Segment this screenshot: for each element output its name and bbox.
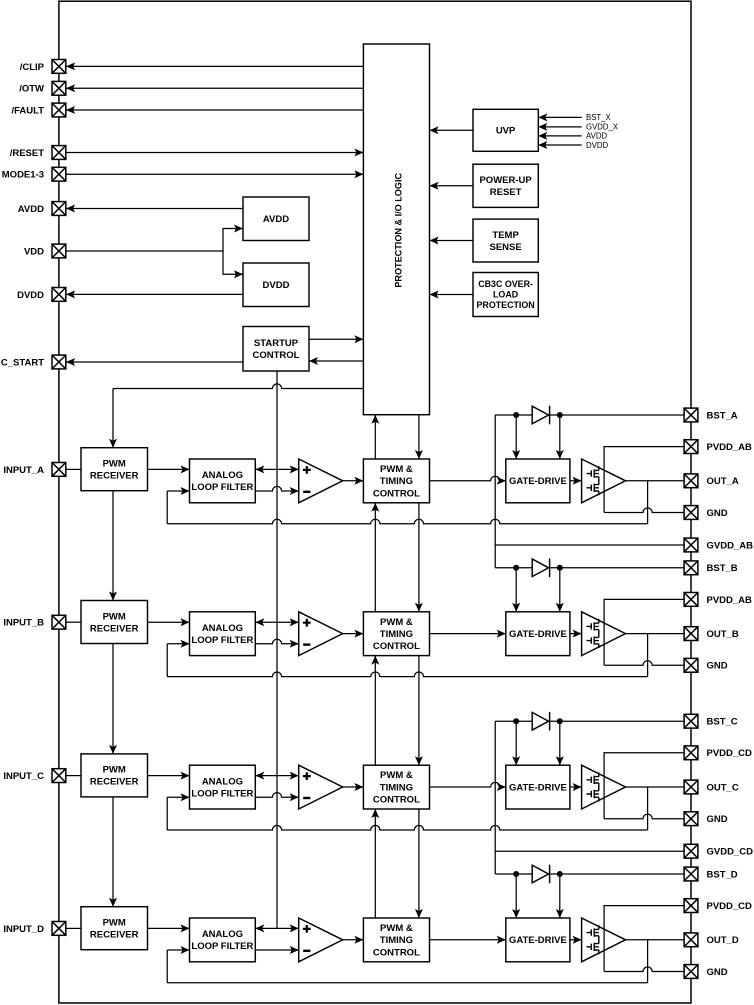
wire bootstrap BST_D [495, 873, 684, 875]
wire gate drive D to power stage [570, 939, 582, 941]
wire AVDD reg to pin [66, 208, 243, 210]
block UVP [473, 109, 538, 151]
svg-text:DVDD: DVDD [263, 280, 290, 291]
pin /RESET [52, 146, 66, 160]
wire control down PWM C to PWM D [418, 809, 420, 918]
svg-text:BST_A: BST_A [707, 410, 738, 421]
wire GND rail D [604, 967, 684, 972]
block ANALOG LOOP FILTER C [190, 765, 256, 809]
svg-text:TIMING: TIMING [380, 935, 413, 946]
svg-text:ANALOG: ANALOG [202, 929, 243, 940]
wire output feedback C [647, 787, 649, 830]
wire MODE1-3 [66, 173, 363, 175]
pin VDD [52, 244, 66, 258]
svg-text:PVDD_AB: PVDD_AB [707, 442, 753, 453]
svg-text:GND: GND [707, 967, 728, 978]
wire bootstrap drop right A [559, 415, 561, 459]
wire PVDD rail C [604, 753, 684, 819]
wire bootstrap drop left C [515, 721, 517, 765]
wire PWM receiver A to receiver B [112, 491, 114, 601]
svg-text:RECEIVER: RECEIVER [90, 777, 139, 788]
wire INPUT_C pin to receiver [66, 775, 81, 777]
block PWM RECEIVER B [81, 601, 148, 644]
wire GVDD_CD [495, 850, 684, 852]
block STARTUP CONTROL [243, 327, 309, 372]
wire output feedback B [647, 634, 649, 677]
junction dot bootstrap B cathode [557, 565, 563, 571]
wire PVDD rail A [604, 447, 684, 513]
svg-text:TIMING: TIMING [380, 782, 413, 793]
wire UVP input DVDD [538, 144, 581, 146]
diode bootstrap B [532, 559, 548, 577]
pin INPUT_B [52, 615, 66, 629]
svg-text:INPUT_D: INPUT_D [3, 924, 44, 935]
svg-text:GATE-DRIVE: GATE-DRIVE [509, 629, 567, 640]
svg-text:PVDD_AB: PVDD_AB [707, 595, 753, 606]
svg-text:BST_X: BST_X [586, 113, 611, 122]
pin GND #3 [684, 506, 698, 520]
block GATE-DRIVE A [506, 459, 570, 503]
svg-text:VDD: VDD [24, 246, 44, 257]
wire INPUT_A pin to receiver [66, 468, 81, 470]
svg-text:PVDD_CD: PVDD_CD [707, 748, 753, 759]
wire GND rail A [604, 508, 684, 513]
svg-text:STARTUP: STARTUP [254, 338, 299, 349]
wire loop filter A to comparator minus [255, 486, 298, 491]
svg-text:OUT_B: OUT_B [707, 629, 739, 640]
svg-text:OUT_C: OUT_C [707, 782, 739, 793]
power stage B [582, 612, 626, 656]
wire GND rail B [604, 661, 684, 666]
wire loop filter D to comparator plus [255, 927, 298, 929]
wire PWM timing D to gate drive [430, 939, 506, 941]
pin /FAULT [52, 103, 66, 117]
svg-text:LOOP FILTER: LOOP FILTER [191, 788, 253, 799]
svg-text:TEMP: TEMP [492, 230, 519, 241]
svg-text:AVDD: AVDD [18, 204, 44, 215]
pin C_START [52, 355, 66, 369]
svg-text:/OTW: /OTW [19, 84, 44, 95]
diode bootstrap D [532, 865, 548, 883]
pin INPUT_D [52, 922, 66, 936]
wire bootstrap drop left D [515, 874, 517, 918]
svg-text:ANALOG: ANALOG [202, 623, 243, 634]
svg-text:INPUT_C: INPUT_C [3, 771, 44, 782]
svg-text:POWER-UP: POWER-UP [479, 175, 532, 186]
pin GND #17 [684, 965, 698, 979]
svg-text:LOOP FILTER: LOOP FILTER [191, 941, 253, 952]
svg-text:DVDD: DVDD [586, 141, 608, 150]
wire /RESET [66, 152, 363, 154]
svg-text:PWM: PWM [103, 459, 126, 470]
wire comparator B to PWM timing [343, 633, 364, 635]
svg-text:GVDD_X: GVDD_X [586, 123, 619, 132]
block PROTECTION & I/O LOGIC [363, 44, 429, 415]
svg-text:/RESET: /RESET [10, 148, 45, 159]
pin PVDD_CD #10 [684, 746, 698, 760]
wire OUT_D [626, 939, 684, 941]
svg-text:PWM &: PWM & [380, 770, 413, 781]
wire loop filter B to comparator plus [255, 621, 298, 623]
wire PVDD rail D [604, 906, 684, 972]
pin BST_C #9 [684, 714, 698, 728]
wire PWM timing B to gate drive [430, 633, 506, 635]
svg-text:RECEIVER: RECEIVER [90, 930, 139, 941]
wire bootstrap drop right B [559, 568, 561, 612]
svg-text:OUT_D: OUT_D [707, 935, 739, 946]
wire PWM receiver B to receiver C [112, 644, 114, 754]
junction dot bootstrap B anode [513, 565, 519, 571]
power stage C [582, 765, 626, 809]
block PWM & TIMING CONTROL B [363, 612, 429, 656]
wire PVDD rail B [604, 599, 684, 665]
svg-text:SENSE: SENSE [489, 242, 521, 253]
wire INPUT_B pin to receiver [66, 621, 81, 623]
block AVDD regulator [243, 197, 309, 241]
pin OUT_B #7 [684, 627, 698, 641]
pin GVDD_AB #4 [684, 538, 698, 552]
power stage D [582, 918, 626, 962]
pin GVDD_CD #13 [684, 844, 698, 858]
wire startup control bus [276, 371, 278, 928]
wire bootstrap drop right C [559, 721, 561, 765]
svg-text:AVDD: AVDD [263, 214, 289, 225]
wire control down PWM B to PWM C [418, 656, 420, 766]
wire bootstrap drop left B [515, 568, 517, 612]
svg-text:CONTROL: CONTROL [373, 488, 420, 499]
block PWM RECEIVER C [81, 754, 148, 797]
pin OUT_C #11 [684, 780, 698, 794]
svg-text:C_START: C_START [1, 357, 44, 368]
svg-text:MODE1-3: MODE1-3 [2, 170, 44, 181]
svg-text:GVDD_AB: GVDD_AB [707, 540, 754, 551]
wire VDD to regulators [66, 250, 223, 252]
pin INPUT_A [52, 463, 66, 477]
svg-text:OUT_A: OUT_A [707, 476, 739, 487]
wire UVP input GVDD_X [538, 126, 581, 128]
svg-text:/FAULT: /FAULT [11, 105, 44, 116]
wire bootstrap vertical AB [494, 415, 496, 568]
pin BST_B #5 [684, 561, 698, 575]
svg-text:UVP: UVP [496, 126, 516, 137]
wire PWM timing C to gate drive [430, 782, 506, 787]
junction dot bootstrap A cathode [557, 412, 563, 418]
svg-text:PWM &: PWM & [380, 617, 413, 628]
svg-text:AVDD: AVDD [586, 132, 607, 141]
wire gate drive B to power stage [570, 633, 582, 635]
svg-text:RESET: RESET [490, 187, 522, 198]
wire power-up reset to protection [430, 185, 474, 187]
wire clock line to PWM receiver chain [113, 384, 363, 389]
wire loop filter A to comparator plus [255, 468, 298, 470]
wire GND rail C [604, 814, 684, 819]
pin MODE1-3 [52, 167, 66, 181]
pin BST_A #0 [684, 408, 698, 422]
block TEMP SENSE [473, 219, 538, 262]
block ANALOG LOOP FILTER B [190, 612, 256, 656]
wire receiver D to loop filter [148, 927, 190, 929]
wire bootstrap drop right D [559, 874, 561, 918]
pin GND #8 [684, 658, 698, 672]
svg-text:INPUT_B: INPUT_B [3, 618, 44, 629]
block GATE-DRIVE B [506, 612, 570, 656]
svg-text:PWM &: PWM & [380, 464, 413, 475]
block PWM RECEIVER A [81, 448, 148, 491]
pin OUT_A #2 [684, 474, 698, 488]
block ANALOG LOOP FILTER D [190, 918, 256, 962]
junction dot bootstrap A anode [513, 412, 519, 418]
wire protection to startup [309, 360, 363, 362]
wire status up PWM A to PWM B [374, 503, 376, 612]
svg-text:ANALOG: ANALOG [202, 470, 243, 481]
svg-text:RECEIVER: RECEIVER [90, 623, 139, 634]
pin AVDD [52, 202, 66, 216]
pin GND #12 [684, 812, 698, 826]
pin DVDD [52, 288, 66, 302]
pin /CLIP [52, 60, 66, 74]
diode bootstrap C [532, 712, 548, 730]
wire comparator C to PWM timing [343, 786, 364, 788]
wire GVDD_AB [495, 544, 684, 546]
wire /FAULT [66, 109, 363, 111]
pin BST_D #14 [684, 867, 698, 881]
wire UVP input AVDD [538, 135, 581, 137]
svg-text:PVDD_CD: PVDD_CD [707, 901, 753, 912]
svg-text:BST_B: BST_B [707, 563, 738, 574]
wire loop filter B to comparator minus [255, 639, 298, 644]
svg-text:TIMING: TIMING [380, 629, 413, 640]
comparator A [299, 459, 343, 503]
wire status up protection to PWM A [374, 415, 376, 459]
wire DVDD reg to pin [66, 293, 243, 295]
wire PWM receiver C to receiver D [112, 797, 114, 907]
svg-text:CONTROL: CONTROL [373, 947, 420, 958]
wire INPUT_D pin to receiver [66, 927, 81, 929]
comparator C [299, 765, 343, 809]
svg-text:LOOP FILTER: LOOP FILTER [191, 482, 253, 493]
block GATE-DRIVE D [506, 918, 570, 962]
block DVDD regulator [243, 263, 309, 307]
pin INPUT_C [52, 769, 66, 783]
wire bootstrap BST_A [495, 414, 684, 416]
comparator B [299, 612, 343, 656]
block CB3C OVERLOAD PROTECTION [473, 273, 538, 317]
block PWM & TIMING CONTROL C [363, 765, 429, 809]
block ANALOG LOOP FILTER A [190, 459, 256, 503]
svg-text:/CLIP: /CLIP [20, 62, 45, 73]
svg-text:PWM: PWM [103, 611, 126, 622]
pin PVDD_CD #15 [684, 899, 698, 913]
wire output feedback A [647, 481, 649, 524]
svg-text:PROTECTION: PROTECTION [477, 300, 535, 310]
wire OUT_B [626, 633, 684, 635]
wire C_START [66, 361, 243, 363]
wire OUT_C [626, 786, 684, 788]
block PWM & TIMING CONTROL D [363, 918, 429, 962]
pin PVDD_AB #6 [684, 593, 698, 607]
svg-text:CB3C OVER-: CB3C OVER- [478, 279, 533, 289]
block PWM RECEIVER D [81, 907, 148, 950]
wire bootstrap BST_B [495, 567, 684, 569]
svg-text:ANALOG: ANALOG [202, 776, 243, 787]
wire receiver C to loop filter [148, 775, 190, 777]
wire temp sense to protection [430, 240, 474, 242]
svg-text:CONTROL: CONTROL [373, 795, 420, 806]
wire bootstrap BST_C [495, 720, 684, 722]
junction dot bootstrap C cathode [557, 718, 563, 724]
wire loop filter C to comparator plus [255, 775, 298, 777]
wire gate drive C to power stage [570, 786, 582, 788]
wire OUT_A [626, 480, 684, 482]
wire UVP input BST_X [538, 116, 581, 118]
wire startup to protection [309, 338, 363, 340]
wire loop filter D to comparator minus [255, 949, 298, 951]
svg-text:GND: GND [707, 661, 728, 672]
wire overload protection to protection [430, 294, 474, 296]
svg-text:CONTROL: CONTROL [373, 641, 420, 652]
wire loop filter C to comparator minus [255, 793, 298, 798]
svg-text:TIMING: TIMING [380, 476, 413, 487]
pin /OTW [52, 81, 66, 95]
svg-text:GATE-DRIVE: GATE-DRIVE [509, 935, 567, 946]
svg-text:LOOP FILTER: LOOP FILTER [191, 635, 253, 646]
wire control down protection to PWM A [418, 415, 420, 459]
svg-text:GND: GND [707, 814, 728, 825]
svg-text:PWM &: PWM & [380, 923, 413, 934]
comparator D [299, 918, 343, 962]
junction dot bootstrap D anode [513, 871, 519, 877]
wire gate drive A to power stage [570, 480, 582, 482]
svg-text:RECEIVER: RECEIVER [90, 471, 139, 482]
svg-text:BST_D: BST_D [707, 869, 738, 880]
wire PWM timing A to gate drive [430, 476, 506, 481]
svg-text:INPUT_A: INPUT_A [3, 465, 44, 476]
wire status up PWM C to PWM D [374, 809, 376, 918]
block POWER-UP RESET [473, 164, 538, 207]
wire receiver A to loop filter [148, 468, 190, 470]
wire comparator A to PWM timing [343, 480, 364, 482]
wire comparator D to PWM timing [343, 939, 364, 941]
wire UVP to protection [430, 129, 474, 131]
svg-text:PWM: PWM [103, 918, 126, 929]
svg-text:GND: GND [707, 508, 728, 519]
block GATE-DRIVE C [506, 765, 570, 809]
svg-text:LOAD: LOAD [493, 290, 519, 300]
svg-text:CONTROL: CONTROL [253, 350, 300, 361]
svg-text:GATE-DRIVE: GATE-DRIVE [509, 476, 567, 487]
wire status up PWM B to PWM C [374, 656, 376, 766]
block PWM & TIMING CONTROL A [363, 459, 429, 503]
svg-text:PWM: PWM [103, 765, 126, 776]
diode bootstrap A [532, 406, 548, 424]
wire /OTW [66, 87, 363, 89]
pin OUT_D #16 [684, 933, 698, 947]
svg-text:GATE-DRIVE: GATE-DRIVE [509, 782, 567, 793]
junction dot bootstrap C anode [513, 718, 519, 724]
wire receiver B to loop filter [148, 621, 190, 623]
pin PVDD_AB #1 [684, 440, 698, 454]
junction dot bootstrap D cathode [557, 871, 563, 877]
svg-text:GVDD_CD: GVDD_CD [707, 847, 754, 858]
wire bootstrap drop left A [515, 415, 517, 459]
wire control down PWM A to PWM B [418, 503, 420, 612]
wire bootstrap vertical CD [494, 721, 496, 874]
svg-text:PROTECTION & I/O LOGIC: PROTECTION & I/O LOGIC [393, 173, 403, 288]
wire /CLIP [66, 65, 363, 67]
svg-text:DVDD: DVDD [17, 290, 44, 301]
wire output feedback D [647, 940, 649, 983]
svg-text:BST_C: BST_C [707, 717, 738, 728]
power stage A [582, 459, 626, 503]
